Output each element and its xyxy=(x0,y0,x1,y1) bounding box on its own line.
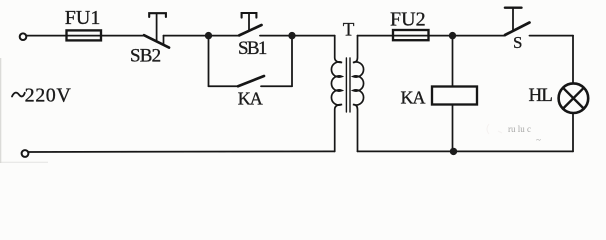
svg-text:SB2: SB2 xyxy=(130,46,161,67)
svg-text:ru lu c: ru lu c xyxy=(508,124,531,134)
svg-text:FU2: FU2 xyxy=(390,9,426,31)
svg-text:SB1: SB1 xyxy=(238,38,267,59)
svg-text:FU1: FU1 xyxy=(65,7,101,29)
svg-text:KA: KA xyxy=(238,89,263,109)
svg-text:220V: 220V xyxy=(25,85,72,107)
svg-text:HL: HL xyxy=(529,85,553,106)
svg-text:~: ~ xyxy=(536,135,541,145)
svg-text:KA: KA xyxy=(401,88,426,108)
svg-text:S: S xyxy=(513,33,522,52)
svg-text:T: T xyxy=(343,19,355,40)
